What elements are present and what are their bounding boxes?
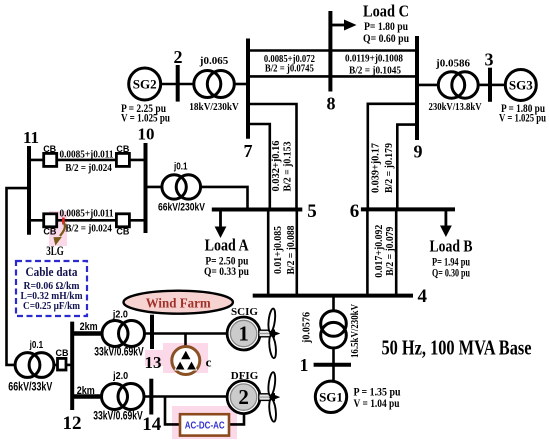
svg-text:Q= 0.30 pu: Q= 0.30 pu <box>432 268 470 280</box>
svg-text:AC-DC-AC: AC-DC-AC <box>185 420 225 431</box>
svg-text:Load B: Load B <box>430 237 473 256</box>
svg-text:8: 8 <box>327 94 336 114</box>
svg-text:CB: CB <box>43 227 56 237</box>
svg-text:33kV/0.69kV: 33kV/0.69kV <box>93 411 143 423</box>
svg-text:Q= 0.60 pu: Q= 0.60 pu <box>363 33 410 45</box>
svg-text:SG1: SG1 <box>319 390 343 405</box>
svg-text:33kV/0.69kV: 33kV/0.69kV <box>94 347 144 359</box>
svg-text:4: 4 <box>418 286 428 307</box>
svg-text:SCIG: SCIG <box>231 306 258 318</box>
svg-text:50 Hz, 100 MVA Base: 50 Hz, 100 MVA Base <box>382 336 532 360</box>
svg-text:11: 11 <box>23 128 39 147</box>
svg-text:B/2 = j0.079: B/2 = j0.079 <box>385 227 396 276</box>
svg-text:2km: 2km <box>77 385 95 397</box>
svg-text:Q= 0.33 pu: Q= 0.33 pu <box>204 266 249 278</box>
svg-text:j0.0586: j0.0586 <box>435 58 470 70</box>
svg-text:66kV/33kV: 66kV/33kV <box>8 382 52 394</box>
svg-text:V = 1.025 pu: V = 1.025 pu <box>499 113 546 125</box>
svg-text:j0.1: j0.1 <box>173 161 187 173</box>
svg-text:B/2 = j0.179: B/2 = j0.179 <box>384 143 395 193</box>
svg-text:B/2 = j0.153: B/2 = j0.153 <box>282 142 293 192</box>
svg-text:j0.065: j0.065 <box>199 55 229 67</box>
svg-text:6: 6 <box>350 201 360 222</box>
svg-text:16.5kV/230kV: 16.5kV/230kV <box>350 304 361 358</box>
svg-text:0.039+j0.17: 0.039+j0.17 <box>371 143 382 193</box>
svg-text:5: 5 <box>307 201 317 222</box>
svg-text:P = 1.35 pu: P = 1.35 pu <box>354 387 402 399</box>
svg-text:j0.0576: j0.0576 <box>302 312 313 344</box>
svg-text:C=0.25 μF/km: C=0.25 μF/km <box>23 301 80 312</box>
svg-text:0.032+j0.16: 0.032+j0.16 <box>271 141 282 192</box>
svg-text:V = 1.04 pu: V = 1.04 pu <box>354 398 400 410</box>
svg-text:1: 1 <box>300 355 309 375</box>
svg-text:66kV/230kV: 66kV/230kV <box>158 202 206 214</box>
svg-text:j2.0: j2.0 <box>112 370 128 382</box>
svg-text:Load A: Load A <box>205 236 250 255</box>
svg-text:j2.0: j2.0 <box>112 309 128 321</box>
svg-text:B/2 = j0.1045: B/2 = j0.1045 <box>349 65 401 77</box>
svg-text:Load C: Load C <box>363 2 409 21</box>
svg-text:0.017+j0.092: 0.017+j0.092 <box>374 225 385 278</box>
svg-text:B/2 = j0.024: B/2 = j0.024 <box>65 162 112 174</box>
svg-text:j0.1: j0.1 <box>29 339 43 351</box>
svg-text:0.0119+j0.1008: 0.0119+j0.1008 <box>345 53 403 65</box>
svg-text:B/2 = j0.0745: B/2 = j0.0745 <box>265 63 314 75</box>
svg-text:0.01+j0.085: 0.01+j0.085 <box>273 226 284 274</box>
svg-text:2km: 2km <box>80 321 98 333</box>
svg-text:DFIG: DFIG <box>231 370 259 382</box>
svg-text:SG3: SG3 <box>509 78 533 93</box>
svg-text:V = 1.025 pu: V = 1.025 pu <box>121 113 170 125</box>
svg-text:18kV/230kV: 18kV/230kV <box>189 101 239 113</box>
svg-text:9: 9 <box>414 142 423 162</box>
svg-text:0.0085+j0.011: 0.0085+j0.011 <box>60 149 114 161</box>
svg-text:B/2 = j0.088: B/2 = j0.088 <box>286 226 297 275</box>
svg-text:14: 14 <box>142 414 162 435</box>
svg-text:c: c <box>206 355 212 370</box>
svg-text:2: 2 <box>238 385 249 409</box>
svg-text:CB: CB <box>43 144 56 154</box>
svg-text:230kV/13.8kV: 230kV/13.8kV <box>429 101 482 113</box>
svg-text:CB: CB <box>56 348 69 358</box>
svg-text:3LG: 3LG <box>46 244 64 258</box>
svg-text:SG2: SG2 <box>133 77 157 92</box>
svg-text:3: 3 <box>485 50 494 70</box>
svg-text:CB: CB <box>116 227 129 237</box>
svg-text:P= 1.80 pu: P= 1.80 pu <box>364 21 409 33</box>
svg-text:10: 10 <box>138 125 155 144</box>
svg-text:7: 7 <box>244 141 253 161</box>
svg-text:CB: CB <box>116 144 129 154</box>
svg-text:12: 12 <box>63 413 82 434</box>
svg-text:13: 13 <box>145 353 162 372</box>
svg-text:B/2 = j0.024: B/2 = j0.024 <box>65 223 112 235</box>
svg-text:1: 1 <box>238 321 249 345</box>
svg-text:0.0085+j0.011: 0.0085+j0.011 <box>60 208 114 220</box>
svg-text:Cable data: Cable data <box>26 264 78 279</box>
svg-text:2: 2 <box>174 47 183 67</box>
svg-text:Wind Farm: Wind Farm <box>146 296 212 311</box>
